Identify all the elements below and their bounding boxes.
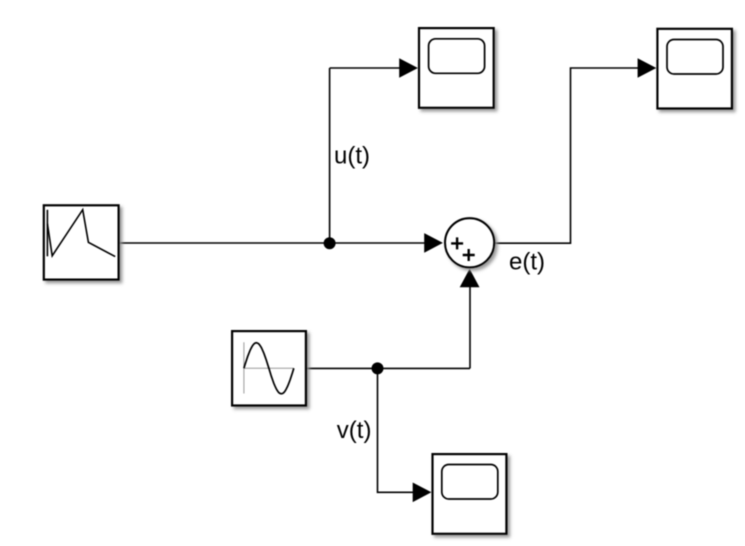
svg-text:v(t): v(t)	[337, 417, 372, 444]
svg-text:e(t): e(t)	[509, 248, 545, 275]
svg-text:u(t): u(t)	[334, 142, 370, 169]
